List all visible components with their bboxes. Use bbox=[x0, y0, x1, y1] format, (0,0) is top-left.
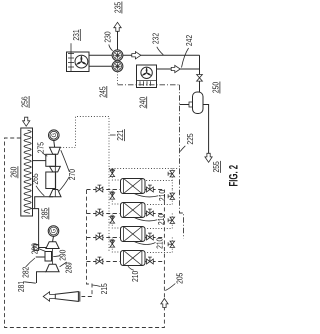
recycle header (dash-dot) across to line 225 bbox=[118, 84, 180, 86]
svg-text:242: 242 bbox=[184, 35, 194, 47]
adsorber vessel 210-2 bbox=[121, 203, 146, 218]
adsorber vessel 210-1 bbox=[121, 179, 146, 194]
inlet arrow 256 bbox=[23, 117, 30, 126]
valve on right line 4 bbox=[147, 259, 150, 264]
product line right of vessel 2 bbox=[145, 213, 164, 215]
electrical/dotted conduit 221 from turbine to equalization manifold bbox=[60, 117, 109, 253]
turbine stage trapezoid 2 bbox=[50, 166, 61, 172]
expander train 270: generator G bbox=[49, 130, 60, 141]
label 231 bbox=[70, 43, 72, 51]
svg-text:235: 235 bbox=[113, 2, 123, 14]
product line right of vessel 1 bbox=[145, 189, 164, 191]
equalization valve right 1 bbox=[170, 171, 175, 174]
svg-text:285: 285 bbox=[39, 208, 49, 220]
valve on right line 1 bbox=[147, 187, 150, 192]
equalization valve right 3 bbox=[170, 217, 175, 220]
stage casing box 2 bbox=[46, 172, 56, 189]
product stream 235 bbox=[117, 30, 119, 50]
feed line left of vessel 1 bbox=[87, 189, 121, 191]
equalization valve right 4 bbox=[170, 241, 175, 244]
feed line left of vessel 2 bbox=[87, 213, 121, 215]
train outlet line to 285 bbox=[35, 197, 53, 209]
equalization drop left, vessel 1 bbox=[112, 169, 120, 181]
label 205 bbox=[165, 284, 175, 291]
svg-text:231: 231 bbox=[71, 29, 81, 41]
heat exchanger vessel 260 bbox=[21, 128, 33, 216]
equalization drop right, vessel 4 bbox=[145, 238, 172, 253]
svg-text:275: 275 bbox=[36, 142, 46, 154]
cooler/blower package 231 bbox=[67, 52, 90, 72]
svg-text:210: 210 bbox=[156, 214, 166, 226]
svg-text:230: 230 bbox=[102, 31, 112, 43]
equalization drop right, vessel 3 bbox=[145, 214, 172, 229]
liquid line 255 from drum bbox=[203, 105, 209, 155]
svg-text:225: 225 bbox=[185, 133, 195, 145]
equalization valve left 3 bbox=[110, 217, 115, 220]
feed line left of vessel 4 bbox=[87, 261, 121, 263]
svg-text:210: 210 bbox=[154, 237, 164, 249]
equalization drop left, vessel 3 bbox=[112, 214, 120, 229]
label 289 bbox=[60, 262, 67, 267]
valve on right line 3 bbox=[147, 235, 150, 240]
suction line 245 from compressor bbox=[117, 72, 119, 85]
label 280 bbox=[38, 248, 46, 251]
valve above drum 250 bbox=[197, 75, 203, 78]
line 242 cooler to drum bbox=[157, 68, 200, 70]
pipe from HX 260 into casing 1 bbox=[33, 160, 46, 162]
small fitting on 285 line bbox=[34, 245, 39, 251]
label 230 bbox=[109, 45, 113, 51]
stub line 282 bbox=[36, 256, 45, 258]
svg-text:205: 205 bbox=[175, 272, 185, 284]
purge/exhaust manifold 215 to flare bbox=[82, 190, 93, 297]
valve on left feed line 1 bbox=[96, 187, 99, 192]
svg-text:250: 250 bbox=[211, 82, 221, 94]
svg-text:210: 210 bbox=[157, 190, 167, 202]
svg-text:281: 281 bbox=[16, 281, 26, 293]
exhaust line 281 from expander 290 bbox=[37, 272, 46, 283]
svg-text:282: 282 bbox=[21, 266, 31, 278]
turbo-expander 280/290: generator G bbox=[48, 226, 59, 237]
drum connection to line 225 bbox=[180, 104, 190, 106]
valve on left feed line 4 bbox=[96, 259, 99, 264]
equalization drop right, vessel 2 bbox=[145, 190, 172, 205]
svg-text:260: 260 bbox=[9, 166, 19, 178]
air cooler 240 bbox=[137, 65, 157, 88]
equalization valve left 1 bbox=[110, 170, 115, 173]
shaft through casings bbox=[54, 154, 56, 197]
svg-text:G: G bbox=[51, 229, 58, 234]
shaft 280 to 290 bbox=[52, 249, 54, 265]
shaft box bbox=[45, 252, 52, 262]
product line right of vessel 4 bbox=[145, 261, 164, 263]
svg-text:232: 232 bbox=[151, 33, 161, 45]
valve on left feed line 2 bbox=[96, 211, 99, 216]
feed line 205 (dashed loop from HX 260 around page bottom) bbox=[5, 138, 165, 328]
flare release arrow bbox=[43, 292, 55, 301]
stream 285 line HX 260 to turbine 280 bbox=[32, 209, 47, 248]
svg-text:210: 210 bbox=[130, 270, 140, 282]
label 275 bbox=[42, 153, 47, 156]
separator drum 250 bbox=[193, 92, 204, 114]
equalization valve left 4 bbox=[110, 241, 115, 244]
labels 210 bbox=[134, 193, 159, 197]
flare stack bbox=[55, 292, 78, 302]
upper equalization manifold (dotted) bbox=[109, 168, 180, 170]
shaft G to 280 bbox=[53, 236, 54, 242]
compressor 230 lower bbox=[112, 61, 123, 72]
label 221 bbox=[110, 134, 116, 136]
adsorber vessel 210-4 bbox=[121, 251, 146, 266]
svg-text:G: G bbox=[51, 133, 58, 138]
valve on right line 2 bbox=[147, 211, 150, 216]
valve on left feed line 3 bbox=[96, 235, 99, 240]
stage casing box 1 bbox=[46, 154, 56, 166]
svg-text:265: 265 bbox=[30, 173, 40, 185]
compressor 230 upper bbox=[112, 50, 123, 61]
shaft G to turbine 275 bbox=[53, 141, 56, 148]
svg-text:256: 256 bbox=[20, 96, 30, 108]
recycle line 232 bbox=[123, 54, 200, 56]
label 225 bbox=[180, 146, 185, 152]
drum inlet nozzle bbox=[189, 102, 193, 107]
svg-text:245: 245 bbox=[97, 86, 107, 98]
svg-text:289: 289 bbox=[64, 262, 74, 274]
line 225 dash-dot vertical bbox=[180, 85, 184, 239]
feed line left of vessel 3 bbox=[87, 237, 121, 239]
equalization valve right 2 bbox=[170, 193, 175, 196]
turbine stage trapezoid 3 bbox=[50, 190, 62, 197]
feed arrow 205 bbox=[161, 299, 168, 308]
drop line to drum with valve bbox=[199, 55, 201, 92]
adsorber vessel 210-3 bbox=[121, 227, 146, 242]
expander trapezoid 290 bbox=[46, 264, 59, 272]
svg-text:FIG. 2: FIG. 2 bbox=[229, 165, 241, 187]
label 290 bbox=[53, 255, 60, 258]
svg-text:290: 290 bbox=[58, 249, 68, 261]
product line right of vessel 3 bbox=[145, 237, 164, 239]
lines 231 to compressors 230 bbox=[89, 54, 112, 56]
svg-text:215: 215 bbox=[99, 283, 109, 295]
equalization valve left 2 bbox=[110, 193, 115, 196]
svg-text:240: 240 bbox=[137, 97, 147, 109]
label 215 bbox=[93, 285, 101, 287]
turbine stage trapezoid (275) bbox=[50, 147, 61, 154]
svg-text:255: 255 bbox=[211, 161, 221, 173]
equalization drop right, vessel 1 bbox=[171, 169, 173, 190]
label 265 bbox=[36, 186, 44, 196]
svg-text:221: 221 bbox=[115, 129, 125, 141]
svg-text:280: 280 bbox=[30, 243, 40, 255]
expander trapezoid 280 bbox=[46, 242, 59, 249]
equalization drop left, vessel 4 bbox=[112, 238, 120, 253]
svg-text:270: 270 bbox=[67, 169, 77, 181]
equalization drop left, vessel 2 bbox=[112, 190, 120, 205]
label 270 with two leaders bbox=[61, 150, 70, 172]
